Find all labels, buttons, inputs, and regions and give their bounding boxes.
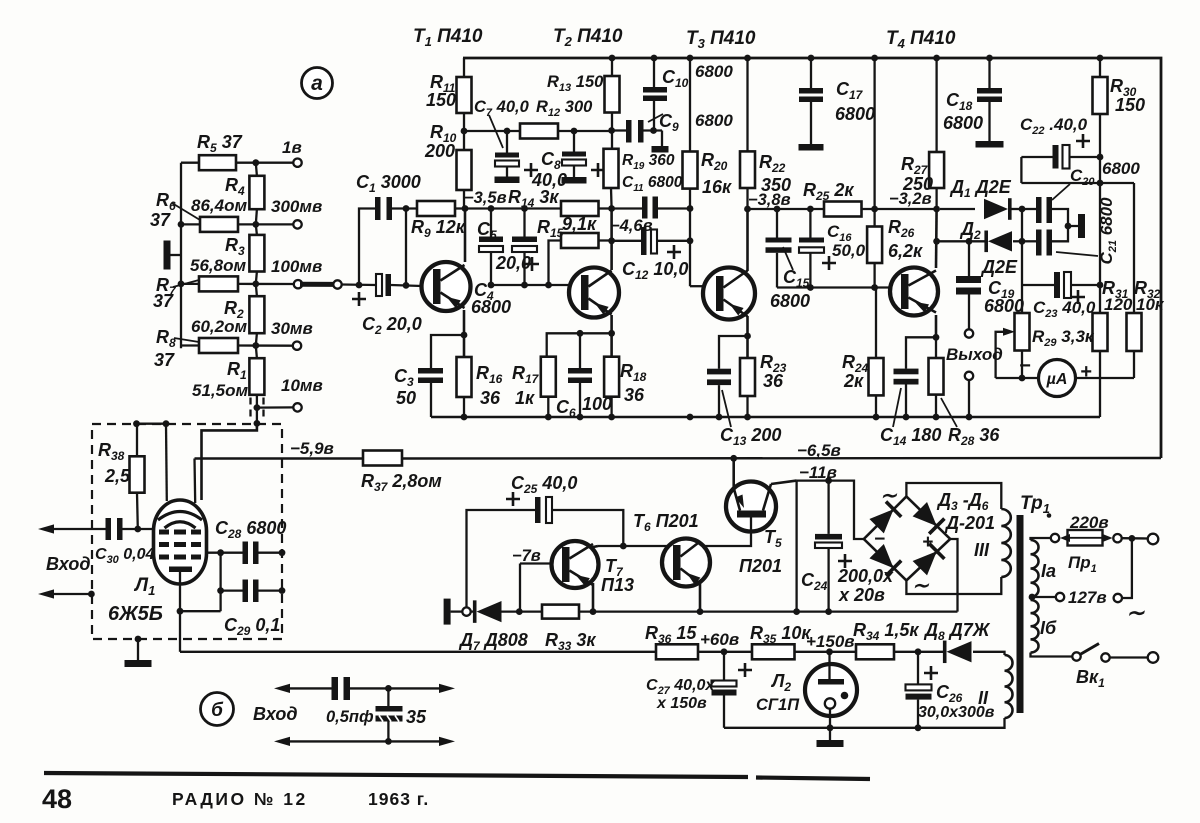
wire: R16 to common rail — [463, 397, 465, 417]
wire: R26 to base — [873, 263, 875, 288]
capacitor C6 100 — [568, 368, 592, 374]
svg-text:Т2 П410: Т2 П410 — [553, 26, 623, 49]
resistor R24 2к — [869, 358, 884, 395]
svg-text:37: 37 — [154, 350, 175, 370]
resistor R33 3к — [542, 605, 579, 619]
svg-text:C25 40,0: C25 40,0 — [511, 473, 577, 496]
wire: R34 to Д8 — [894, 651, 946, 653]
wire: R4 bottom lead — [256, 209, 257, 224]
wire: R2 top lead — [256, 284, 257, 296]
resistor R38 2,5 (grid leak) — [130, 456, 145, 492]
terminal switch Вк1 left — [1072, 652, 1080, 660]
wire: R32 top lead — [1133, 183, 1135, 313]
junction shield bottom — [135, 636, 142, 643]
wire: R29 bottom to meter minus line — [1021, 351, 1023, 379]
ground chassis bar of attenuator bus — [164, 241, 171, 270]
junction ground rail at R28 — [933, 414, 940, 421]
wire: R14 to R19 node — [599, 207, 612, 209]
junction at 100мв row — [252, 281, 259, 288]
wire: R29 top node to C23 — [1022, 284, 1054, 286]
wire: emitter/common line to bridge plus — [579, 610, 958, 612]
svg-text:127в: 127в — [1068, 588, 1107, 607]
svg-text:10мв: 10мв — [281, 376, 323, 395]
wire: R23 to ground rail — [746, 396, 748, 417]
wire: to C12 — [612, 240, 641, 242]
circled letter a (schematic part a) — [302, 68, 333, 99]
svg-text:36: 36 — [480, 388, 501, 408]
junction emitter branch — [608, 330, 615, 337]
wire: C22 left corner down — [1020, 157, 1022, 183]
wire: T2 base line — [491, 284, 570, 286]
capacitor C8 40,0 electrolytic — [573, 131, 575, 152]
junction 127в tap — [1029, 594, 1036, 601]
wire: T7 collector line to T6 base — [598, 545, 669, 547]
resistor R17 1к — [541, 357, 556, 397]
wire: R17 to ground rail — [547, 397, 549, 417]
capacitor C10 6800 (rail bypass) — [653, 58, 655, 87]
wire: R10 to collector node — [463, 190, 465, 209]
svg-text:Д8 Д7Ж: Д8 Д7Ж — [923, 620, 991, 643]
junction rail at R22 — [744, 55, 751, 62]
transistor T4 (П410) — [890, 268, 938, 316]
svg-text:150: 150 — [1115, 95, 1145, 115]
diode Д3 (bridge top-left arm) — [869, 509, 893, 533]
wire: R12 left segment with C7 tap — [464, 130, 520, 132]
capacitor C1 3000 (plates) — [375, 197, 381, 220]
svg-text:C23 40,0: C23 40,0 — [1033, 298, 1096, 320]
svg-text:120: 120 — [1104, 295, 1133, 314]
junction on T1 base line — [403, 282, 410, 289]
capacitor C12 10,0 electrolytic (plates) — [641, 227, 647, 255]
svg-text:−: − — [1019, 355, 1031, 377]
junction C29 at shield — [279, 587, 286, 594]
capacitor C5 20,0 electrolytic (right pair) — [523, 209, 525, 237]
wire: R35 to R34 (+150в node) — [795, 651, 857, 653]
junction mains selector — [1129, 535, 1136, 542]
junction on bus at R7 row — [178, 281, 185, 288]
svg-text:Д7 Д808: Д7 Д808 — [458, 630, 528, 653]
fuse Пр1 220в — [1068, 530, 1103, 546]
anode bar inside Л1 — [169, 567, 192, 573]
junction emitter/C3 branch — [461, 332, 468, 339]
svg-text:100мв: 100мв — [271, 257, 322, 276]
svg-text:III: III — [974, 540, 990, 560]
filament arc inside Л1 — [158, 512, 202, 521]
capacitor C29 0,1 (plates) — [243, 580, 249, 603]
capacitor 35 (plates) — [376, 706, 403, 712]
transistor T1 (П410) — [422, 262, 471, 311]
junction rail at R27 — [933, 55, 940, 62]
resistor R2 60,2ом — [249, 296, 264, 333]
resistor R10 200 — [457, 150, 472, 190]
wire: fuse to mains terminal — [1122, 537, 1148, 540]
plus sign of C16 — [822, 256, 836, 270]
wire: cross line to R32 column — [1021, 182, 1134, 184]
wire: C20 to center ground bar — [1052, 209, 1078, 226]
wire: R28 to ground rail — [935, 395, 937, 417]
arrowhead input lower — [38, 589, 54, 598]
svg-text:1в: 1в — [282, 138, 302, 157]
terminal 300мв — [293, 220, 301, 228]
svg-text:6800: 6800 — [770, 291, 810, 311]
capacitor C23 40,0 electrolytic (plates) — [1054, 272, 1060, 298]
capacitor C19 6800 (output coupling) — [968, 241, 970, 276]
svg-text:Iб: Iб — [1040, 618, 1057, 638]
arrowhead left upper — [274, 684, 290, 693]
wire: bus to R5 — [181, 162, 199, 164]
wire: C30 to grid of Л1 — [123, 528, 154, 530]
junction T2 collector node — [608, 205, 615, 212]
svg-text:9,1к: 9,1к — [562, 214, 597, 234]
svg-text:R33 3к: R33 3к — [545, 630, 596, 653]
wire: R13 to R19 — [611, 113, 613, 149]
wire: R25 to T4 collector node — [862, 208, 937, 210]
junction rail at R20 — [687, 55, 694, 62]
resistor R6 37 — [200, 217, 238, 232]
svg-text:37: 37 — [153, 291, 174, 311]
ground below Л2 — [829, 728, 831, 740]
resistor R28 36 — [929, 358, 944, 395]
wire: T7 emitter lead — [592, 583, 595, 612]
svg-text:C1 3000: C1 3000 — [356, 172, 421, 195]
wire: collector line to R14 with C4/C5 taps — [465, 207, 561, 209]
wire: bus to R6 — [181, 223, 200, 225]
wire: anode lead down — [179, 572, 181, 611]
junction C15 top — [774, 206, 781, 213]
transformer winding III — [1001, 509, 1011, 577]
svg-text:R28 36: R28 36 — [948, 425, 1000, 448]
input arrow upper (Вход) — [52, 528, 106, 530]
ground bar under C18 — [976, 141, 1004, 148]
svg-text:100: 100 — [582, 394, 612, 414]
wire: R38 bottom to grid node — [136, 493, 139, 529]
terminal after fuse — [1113, 534, 1121, 542]
wire: selector down to 127в terminal — [1122, 538, 1132, 598]
wire: R38 top to filament wire — [136, 424, 138, 456]
wire: R22 to collector node — [746, 188, 748, 209]
diode Д5 (bridge bottom-left arm) — [869, 544, 893, 568]
junction R15 tie to base — [545, 282, 552, 289]
svg-text:1к: 1к — [515, 388, 535, 408]
wire: C21 to center ground bar — [1052, 226, 1068, 241]
wire: branch to C14 — [906, 337, 936, 368]
wire: terminal to Д7 — [471, 610, 474, 612]
capacitor C27 40,0x150в electrolytic — [723, 652, 725, 681]
junction C5 bottom — [521, 282, 528, 289]
diode Д6 (bridge bottom-right arm) — [913, 551, 937, 575]
junction C23 at R31 column — [1097, 282, 1104, 289]
wire: C23 to R31 column — [1071, 284, 1100, 286]
wire: R24 to ground rail — [875, 395, 877, 417]
switch contact 2 terminal — [333, 280, 341, 288]
wire: meter minus lead — [996, 377, 1039, 379]
junction ground rail at C6 — [577, 414, 584, 421]
junction C12 at T3 base column — [687, 237, 694, 244]
junction C16 bottom — [807, 284, 814, 291]
capacitor C17 6800 (rail bypass) — [810, 58, 812, 88]
junction C28 at shield — [279, 549, 286, 556]
svg-text:6Ж5Б: 6Ж5Б — [108, 603, 163, 625]
wire: collector column to Д2 — [937, 240, 987, 242]
transistor T2 (П410) — [569, 268, 619, 318]
diode Д7 Д808 (reference) — [477, 601, 502, 622]
svg-text:37: 37 — [150, 210, 171, 230]
arrowhead of R29 wiper — [1003, 328, 1015, 336]
junction grid / R38 — [134, 526, 141, 533]
terminal 30мв — [293, 342, 301, 350]
svg-text:R34 1,5к: R34 1,5к — [853, 620, 919, 643]
wire: rail to R22 — [746, 57, 748, 151]
junction T3 collector node -3,8в — [744, 206, 751, 213]
arrowhead right of fuse — [1103, 534, 1113, 542]
wire: -5,9в rail segment left of R37 — [195, 457, 364, 459]
svg-text:6800: 6800 — [695, 62, 733, 81]
resistor R13 150 — [605, 76, 620, 113]
transformer core Тр1 — [1017, 515, 1024, 713]
svg-text:R13 150: R13 150 — [547, 73, 604, 94]
capacitor C2 20,0 electrolytic (plates) — [376, 274, 382, 296]
terminal Выход (hot) — [965, 329, 973, 337]
wire: R1 bottom into shielded lead-in — [256, 395, 258, 424]
resistor R12 300 — [520, 124, 558, 139]
terminal 220в side a — [1051, 534, 1059, 542]
svg-text:−3,2в: −3,2в — [889, 190, 932, 208]
svg-text:РАДИО № 12: РАДИО № 12 — [172, 789, 308, 809]
junction C7 top — [504, 128, 511, 135]
wire: Л2 cathode to return line — [829, 709, 831, 728]
svg-text:C29 0,1: C29 0,1 — [224, 615, 280, 638]
wire: branch to R17 — [547, 333, 612, 356]
junction filament wire at box top — [163, 420, 170, 427]
wire: R4 top lead — [256, 163, 257, 176]
junction C5 top — [521, 205, 528, 212]
plus sign of C24 — [838, 554, 852, 568]
plus sign of C8 — [591, 163, 605, 177]
wire: T4 emitter lead — [935, 315, 938, 337]
wire: R15 right lead — [599, 239, 612, 241]
wire: R12 right segment with C8 tap — [558, 130, 611, 132]
wire: B+ return line to winding II bottom — [724, 718, 1005, 728]
junction C6 top lead — [577, 330, 584, 337]
input arrow lower (ground side) — [52, 593, 91, 595]
ground bar under C17 — [799, 144, 824, 151]
svg-text:48: 48 — [42, 784, 72, 814]
junction C26 top — [915, 648, 922, 655]
polarity dot of winding Ia — [1047, 513, 1052, 518]
terminal 1в — [293, 159, 301, 167]
wire: C11 to T3 base column — [658, 207, 690, 209]
wire: C1 to R9 — [392, 207, 417, 209]
meter µA — [1039, 360, 1076, 397]
wire: tap to 127в terminal — [1032, 596, 1055, 598]
wire: negative supply top rail and right edge of amplifier loop — [463, 58, 1161, 458]
capacitor C21 6800 (plates) — [1022, 240, 1036, 242]
wire: node to R29 — [1021, 285, 1023, 313]
resistor R20 16к — [683, 152, 698, 189]
wire: T2 collector lead — [610, 209, 613, 271]
junction C27 top / +60в — [721, 648, 728, 655]
diode Д8 Д7Ж (rectifier) — [947, 641, 972, 662]
arrowhead right lower — [439, 737, 455, 746]
svg-text:R9 12к: R9 12к — [411, 217, 466, 240]
resistor R14 3к — [561, 201, 599, 216]
resistor R37 2,8ом (in -6,5в rail) — [363, 451, 402, 466]
junction ground rail at R24 — [873, 414, 880, 421]
ground bar under C8 — [562, 177, 587, 184]
wire: T4 collector lead — [935, 209, 938, 268]
wire: meter plus lead — [1076, 377, 1135, 379]
capacitor C11 6800 (plates) — [642, 197, 648, 219]
wire: R36 to R35 (+60в node) — [698, 651, 752, 653]
svg-text:Т4 П410: Т4 П410 — [886, 28, 956, 51]
wire: T2 emitter lead — [610, 315, 613, 357]
wire: Д2 to junction — [1013, 240, 1022, 242]
svg-text:+: + — [922, 532, 933, 553]
capacitor C15 6800 — [776, 209, 778, 238]
wire: rail to R20 — [689, 58, 691, 152]
svg-text:300мв: 300мв — [271, 197, 322, 216]
svg-text:86,4ом: 86,4ом — [191, 196, 247, 215]
wire: vertical from T5 collector node down to emitter line — [795, 481, 797, 612]
junction C13 branch — [744, 333, 751, 340]
resistor R26 6,2к — [867, 227, 882, 264]
junction rail drop / R26 column — [871, 206, 878, 213]
wire: +60в line from Л1 anode to R36 — [180, 651, 656, 653]
junction R26/R24 at base — [871, 284, 878, 291]
svg-text:36: 36 — [763, 371, 784, 391]
capacitor C30 0,04 (plates) — [106, 518, 112, 540]
svg-text:−: − — [874, 529, 885, 550]
junction emitter node — [933, 334, 940, 341]
anode bar of Л2 — [818, 679, 844, 685]
wire: R32 to meter plus — [1133, 351, 1135, 378]
svg-text:6,2к: 6,2к — [888, 241, 923, 261]
junction Л2 cathode at return — [827, 724, 834, 731]
junction C26 bottom at return — [915, 724, 922, 731]
wire: T3 base lead — [690, 285, 703, 287]
svg-text:1963 г.: 1963 г. — [368, 789, 429, 809]
svg-text:0,5пф: 0,5пф — [326, 708, 374, 726]
junction C4 bottom — [488, 282, 495, 289]
junction R11/R10/R12 line — [461, 128, 468, 135]
svg-text:∼: ∼ — [880, 485, 898, 507]
wire: Д8 to winding II top — [973, 652, 1005, 655]
resistor R15 9,1к — [561, 233, 599, 248]
junction trimmer top — [385, 685, 392, 692]
wire: collector to Д1 — [940, 208, 975, 210]
wire: T6 emitter lead — [699, 581, 702, 612]
wire: T7 collector short lead — [591, 546, 598, 548]
junction at 300мв row — [252, 221, 259, 228]
svg-text:200: 200 — [424, 141, 455, 161]
wire: -6,5в rail from R37 to right edge — [402, 457, 1161, 460]
arrowhead left of fuse — [1060, 534, 1070, 542]
ground bar under C7 — [495, 177, 520, 184]
wire: winding Iб bottom to switch — [1031, 653, 1072, 657]
svg-text:х 150в: х 150в — [656, 695, 707, 712]
wire: vertical from top rail to R25/R26 node — [873, 58, 875, 209]
junction rail at C18 — [986, 55, 993, 62]
svg-text:+: + — [1080, 361, 1092, 383]
wire: T1 collector lead — [464, 209, 467, 263]
junction C16 top — [807, 206, 814, 213]
resistor R18 36 — [604, 357, 619, 397]
plus sign of C25 — [506, 492, 520, 506]
wire: C9 to junction and ground stub — [644, 129, 663, 131]
wire: C6 to ground rail — [579, 383, 581, 417]
wire: bar to terminal — [451, 610, 463, 612]
svg-text:51,5ом: 51,5ом — [192, 381, 248, 400]
leader line C7 — [489, 115, 503, 148]
svg-text:R14 3к: R14 3к — [508, 187, 559, 210]
wire: C2 to T1 base — [391, 285, 422, 286]
svg-text:−7в: −7в — [512, 547, 541, 565]
wiper arrow of R29 — [996, 332, 1008, 378]
wire: C28/C29 tie column — [219, 553, 221, 612]
leader line C14 — [893, 388, 901, 427]
resistor R30 150 — [1093, 77, 1108, 114]
wire: switch to C2 — [342, 283, 376, 286]
potentiometer R29 3,3к — [1015, 313, 1030, 351]
wire: T3 emitter lead — [746, 316, 749, 358]
svg-text:R25 2к: R25 2к — [803, 180, 854, 203]
leader line R8 — [174, 338, 199, 342]
wire: R11 to R10 — [463, 113, 465, 150]
junction ground rail at output jack — [966, 414, 973, 421]
svg-text:220в: 220в — [1069, 513, 1109, 532]
junction: C1 branch from base feed line — [356, 282, 363, 289]
junction C25 right at T6 base line — [620, 543, 627, 550]
plus sign of C26 — [924, 666, 938, 680]
junction C8 top — [571, 128, 578, 135]
arrowhead left lower — [274, 737, 290, 746]
wire: T4 base line — [777, 286, 891, 288]
wire: R5 to 1в terminal — [236, 162, 293, 164]
svg-text:Д3 -Д6: Д3 -Д6 — [936, 490, 989, 513]
wire: switch to mains terminal lower — [1110, 656, 1148, 658]
junction at emitter line — [793, 608, 800, 615]
svg-text:µА: µА — [1046, 371, 1068, 388]
junction at 30мв row — [252, 342, 259, 349]
transistor T6 (П201) — [662, 539, 710, 587]
wire: up-branch to C1 — [359, 209, 375, 286]
junction T1 collector node -3,5в — [462, 205, 469, 212]
plus sign of C5 — [525, 257, 539, 271]
bridge rectifier Д3-Д6 (Д-201) diamond — [864, 497, 950, 581]
wire: R15 left lead down to base — [549, 241, 562, 286]
junction C24 top — [825, 477, 832, 484]
svg-text:R37 2,8ом: R37 2,8ом — [361, 471, 442, 494]
wire: anode lead of Л2 — [828, 652, 830, 679]
resistor R32 10к — [1127, 313, 1142, 351]
wire: node to R26 — [873, 209, 875, 227]
resistor R27 250 — [929, 152, 944, 188]
junction rail at C10 — [651, 55, 658, 62]
svg-text:150: 150 — [426, 90, 456, 110]
wire: attenuator left bus — [180, 163, 182, 349]
wire: R1 top lead — [256, 346, 257, 359]
wire: ground stub — [661, 131, 663, 147]
resistor R7 37 — [199, 276, 238, 291]
wire: rail to R11 — [463, 58, 465, 77]
capacitor C4 6800 (left pair) — [490, 209, 492, 237]
wire: rail to R27 — [935, 58, 937, 152]
wire: branch to C13 — [719, 336, 748, 369]
wire: C6 top lead — [579, 333, 581, 368]
wire: -11в line to bridge minus — [797, 481, 864, 539]
svg-text:R36 15: R36 15 — [645, 623, 697, 646]
leader line C13 — [722, 390, 731, 427]
